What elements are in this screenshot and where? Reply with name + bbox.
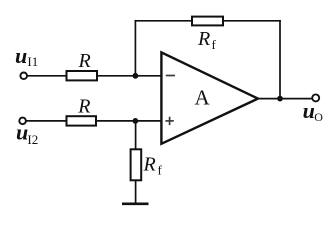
svg-text:I2: I2: [27, 132, 38, 147]
pin: non-inverting (+): [165, 120, 173, 122]
svg-text:I1: I1: [27, 54, 38, 69]
ground: [122, 203, 149, 206]
wire: top feedback right segment: [223, 20, 281, 22]
node: output junction: [277, 96, 283, 102]
svg-text:f: f: [212, 37, 217, 52]
svg-text:R: R: [143, 154, 156, 176]
terminal: input u_I1: [20, 73, 27, 80]
svg-text:u: u: [303, 98, 315, 123]
wire: junction down to grounded resistor: [135, 121, 137, 150]
wire: top feedback left segment: [135, 20, 193, 22]
svg-text:A: A: [195, 85, 211, 109]
node: inverting input junction: [133, 73, 139, 79]
wire: resistor R to inverting input: [97, 75, 161, 77]
svg-text:f: f: [158, 163, 163, 178]
pin: inverting (-): [166, 75, 175, 77]
svg-text:R: R: [77, 95, 90, 117]
op-amp A: [161, 52, 258, 143]
resistor R_f (to ground): [131, 149, 142, 180]
wire: resistor to ground: [135, 180, 137, 204]
wire: input 1 to resistor R: [27, 75, 67, 77]
svg-text:O: O: [314, 110, 323, 124]
resistor R (bottom input): [67, 116, 97, 125]
node: non-inverting input junction: [133, 118, 139, 124]
svg-text:R: R: [78, 50, 91, 72]
wire: junction up to feedback line: [134, 20, 136, 76]
wire: feedback down to output node: [279, 20, 281, 99]
terminal: input u_I2: [19, 118, 26, 125]
resistor R (top input): [67, 71, 98, 80]
svg-text:u: u: [15, 43, 27, 68]
resistor R_f (feedback): [192, 17, 223, 26]
wire: op-amp output: [258, 98, 312, 100]
svg-text:R: R: [197, 28, 210, 50]
wire: input 2 to resistor R: [26, 120, 67, 122]
terminal: output u_O: [312, 94, 319, 101]
wire: resistor R to non-inverting input: [96, 120, 161, 122]
